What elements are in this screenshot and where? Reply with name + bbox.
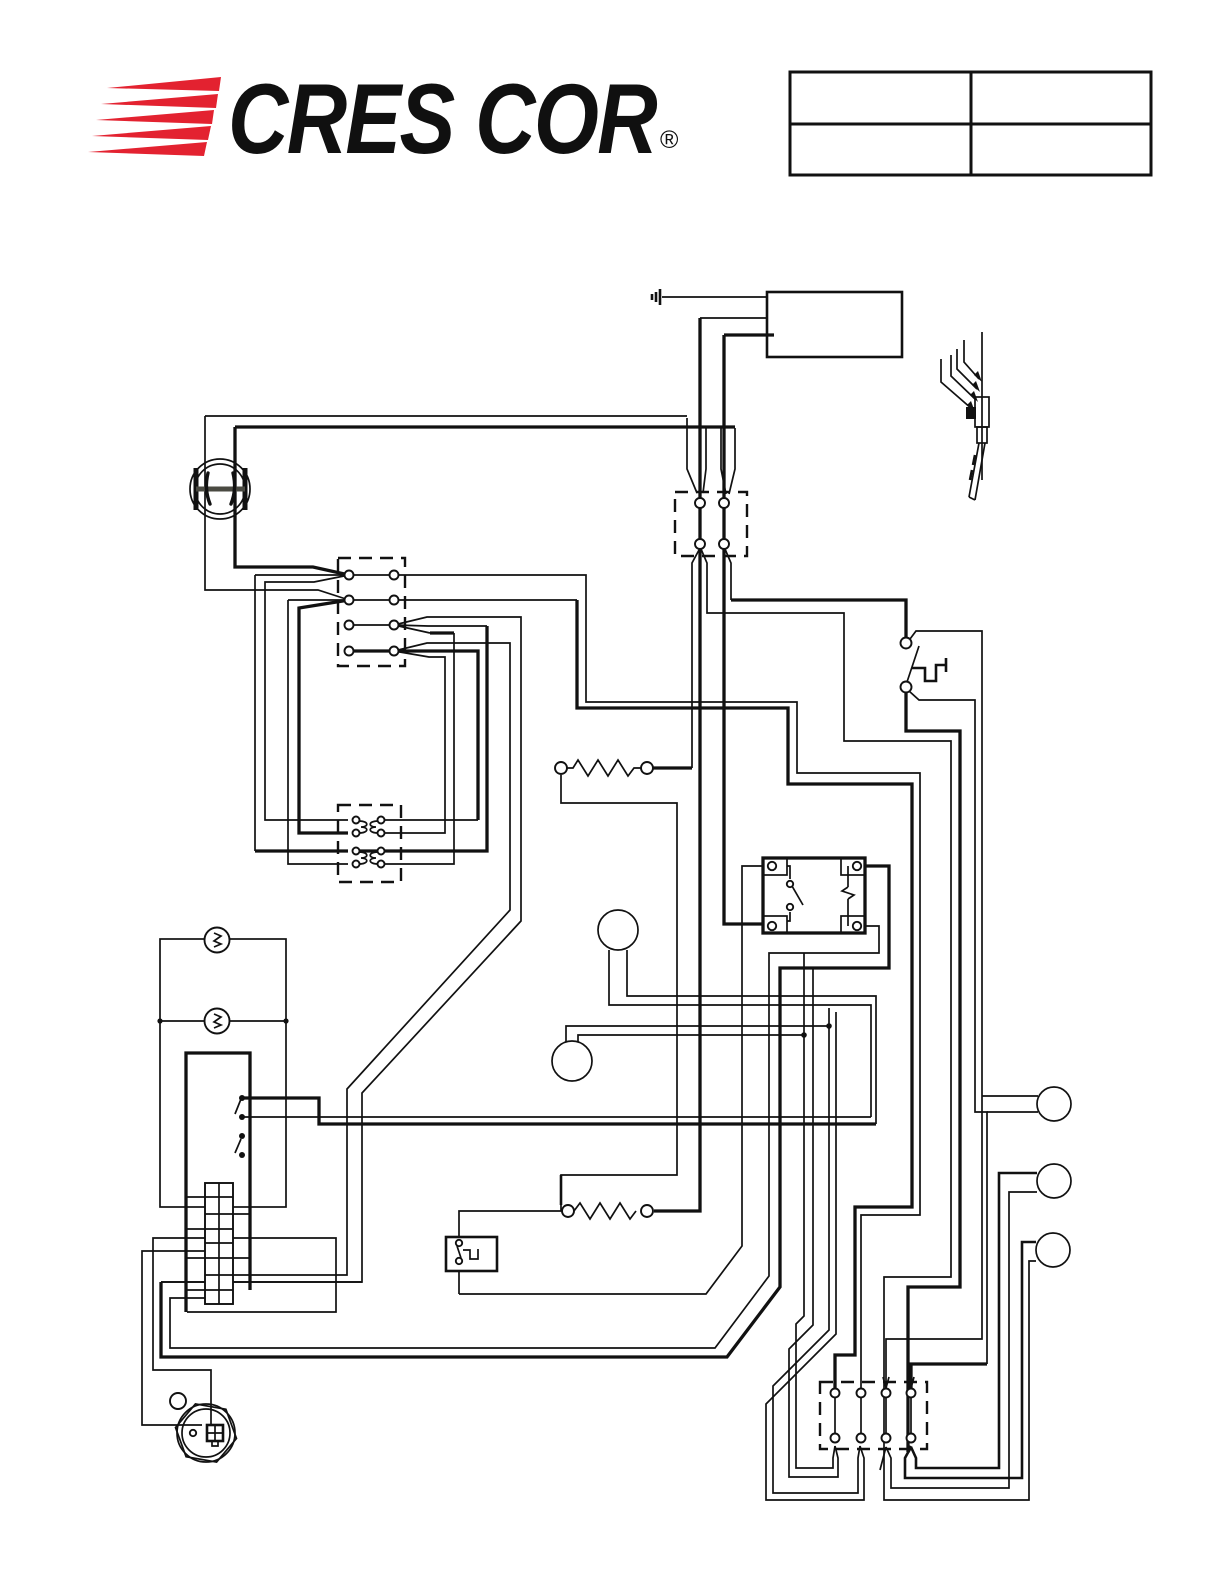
svg-text:CRES COR: CRES COR: [228, 63, 657, 174]
svg-text:®: ®: [660, 126, 679, 154]
